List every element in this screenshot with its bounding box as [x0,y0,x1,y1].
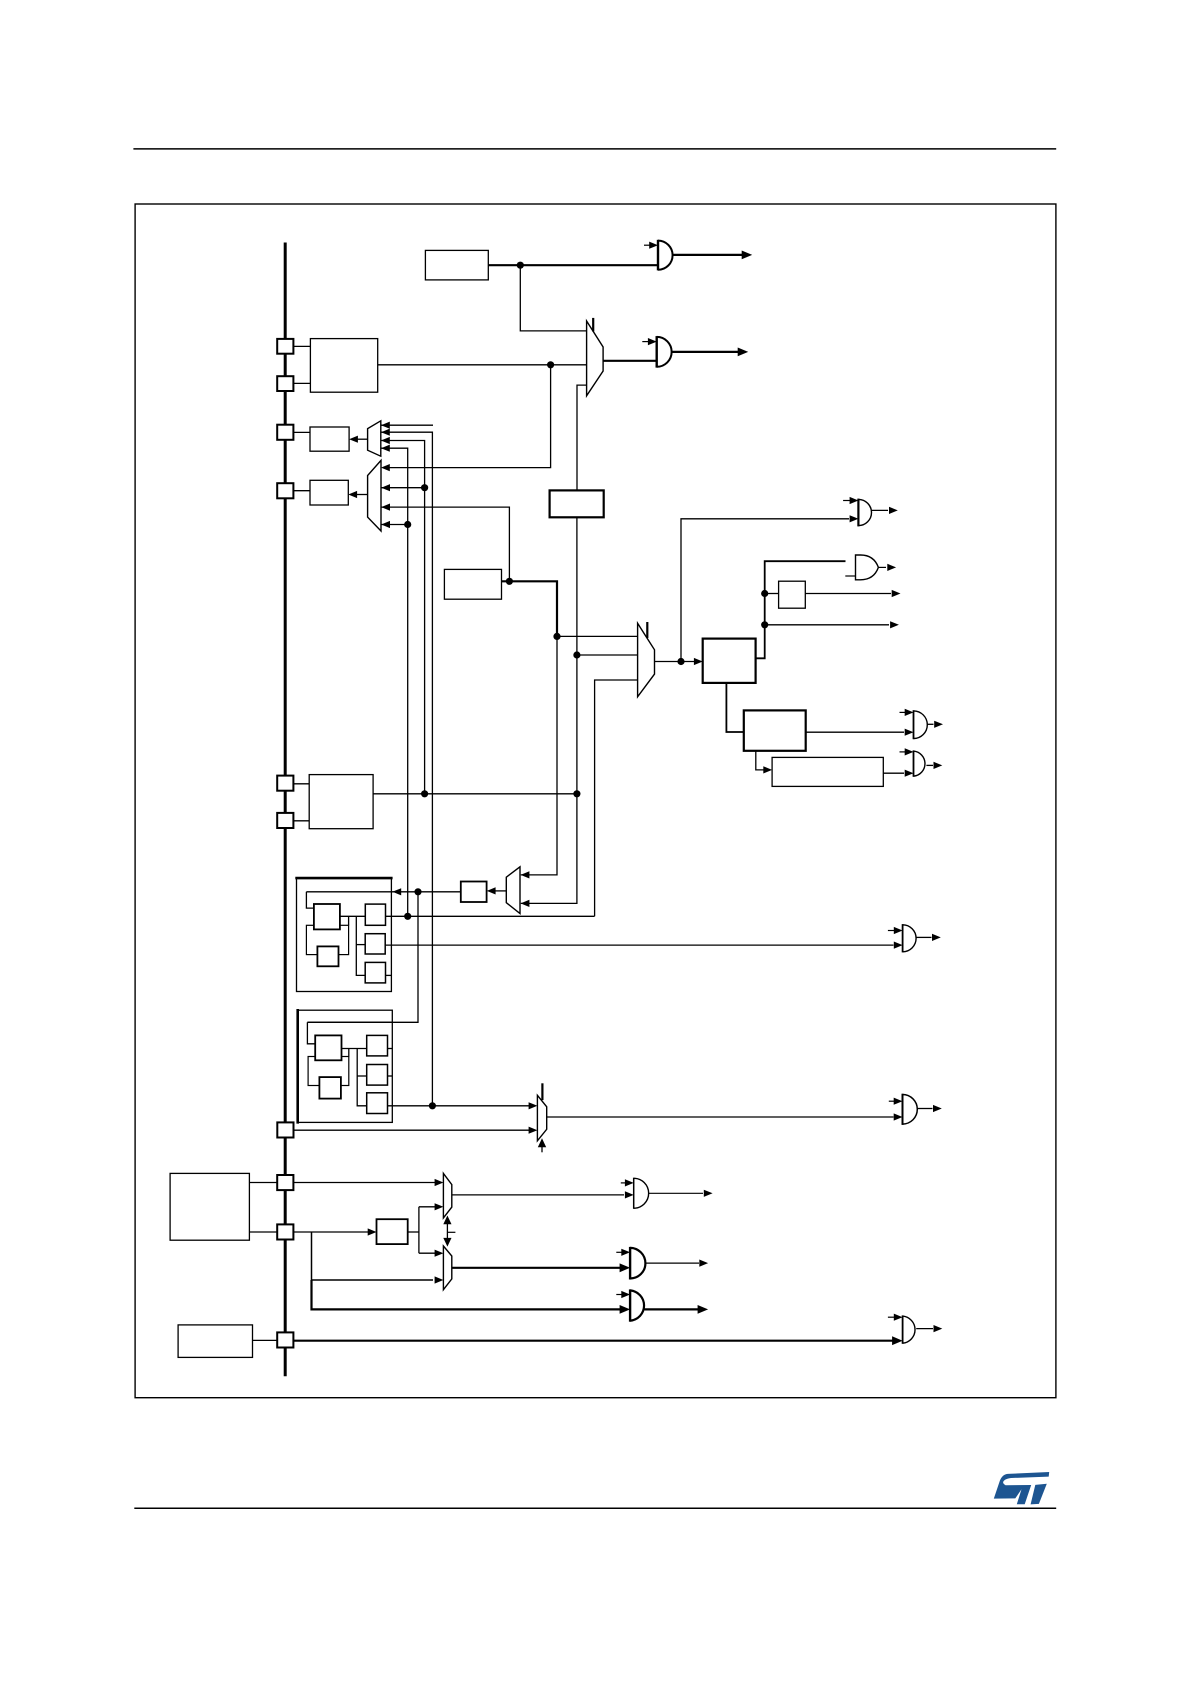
wire: K1 to K3 line [342,1048,367,1050]
gate 11 [913,710,915,739]
bus (internal clock bus vertical) [284,243,287,1377]
mux B (CPU clock mux) [638,623,655,697]
box G4 [365,934,385,954]
wire: to mux F input 1 [419,1252,437,1254]
wire: K3 stub [388,1048,393,1050]
mux D bottom select arrow [541,1146,543,1152]
mux A (master clock switch) [587,321,604,396]
node: junction to line [761,621,768,628]
node: junction on box A output [517,262,524,269]
wire: box L to P9 [249,1231,277,1233]
wire: P6 to box F [293,820,309,822]
pin square P10 [277,1332,293,1347]
wire: junction up and right to gate 3 [681,519,849,662]
gate 9 [902,1315,904,1343]
gate 4 stub input [845,575,855,577]
box G vertical a [348,916,350,925]
gate 12 enable arrow [900,751,907,753]
wire: junction down to mux A input 1 [520,265,586,331]
box K vertical b [357,1049,367,1106]
gate 12 [913,750,915,776]
wire: P7 to mux D input 2 [294,1129,532,1131]
mux 2 [368,460,381,531]
box C (CPU divider, thick) [703,639,756,683]
gate 3 (CPU clock gate) [857,499,859,527]
wire: mux 1 input 4 vertical [381,448,408,916]
box K outer (beeper block) [298,1010,393,1122]
wire: gate 9 output arrow [916,1328,933,1330]
box A (HSI RC oscillator) [425,250,488,280]
wire: K5 output to mux D input 1 [388,1105,532,1107]
wire: mux 1 output into box 1 [355,438,368,440]
gate 11 enable arrow [900,711,907,713]
box F (LSE oscillator) [309,775,373,829]
node: junction to box D [761,590,768,597]
node: junction on mux B output [677,658,684,665]
node: junction to box K [414,888,421,895]
wire: box E branch down to box P [756,751,764,770]
wire: gate 12 output arrow [926,764,933,766]
header rule [133,148,1056,150]
pin square P2 [277,376,293,391]
wire: mux 2 input 3 from divider junction [381,507,509,581]
box G vertical b [356,916,365,975]
node: junction on box I output [506,578,513,585]
box K2b [319,1077,341,1099]
gate 7 [629,1247,631,1280]
wire: G3 output long line to mux B riser [386,915,595,917]
mux D select tick [541,1083,543,1100]
wire: mux A output to gate 2 (thick) [603,360,657,362]
box E (peripheral divider, thick) [744,710,806,750]
wire: gate 6 output arrow [649,1192,704,1194]
wire: box M output split [408,1231,419,1233]
wire: branch down to mux F input 2 [312,1232,434,1280]
wire: mux 1 input 3 vertical [381,441,425,794]
wire: box D output arrow [805,593,891,595]
wire: P8 to mux E input 1 [293,1182,437,1184]
wire: P3 to box 1 [293,431,310,433]
wire: box E output to gate 11 [806,731,904,733]
gate 8 [629,1289,631,1321]
wire: K4 stub [388,1075,393,1077]
wire: branch down into box K [307,892,418,1023]
box K4 [367,1065,388,1086]
wire: mux 2 output into box 2 [354,494,368,496]
box K3 [367,1035,388,1056]
mux D (beeper mux) [537,1095,546,1141]
wire: mux E output to gate 6 [452,1194,624,1196]
wire: box P output to gate 12 [883,772,904,774]
wire: P9 to box M [293,1231,370,1233]
wire: mux 2 input 2 [381,487,425,489]
node: junction with P-vertical [404,913,411,920]
box G2a rect [306,925,348,954]
gate 3 enable arrow [843,500,850,502]
gate 10 enable arrow [889,1100,895,1102]
wire: gate 11 output arrow [927,723,933,725]
box B (HSE oscillator) [310,339,377,393]
node: junction with long vertical [429,1102,436,1109]
gate 1 enable arrow [644,244,651,246]
wire: lower branch arrow [765,624,889,626]
wire: gate 4 output arrow [879,566,886,568]
mux A select tick [592,318,594,332]
box I (HSI divider) [444,569,501,599]
select line between mux E and mux F [443,1216,451,1225]
wire: branch down to gate 8 (thick) [312,1280,621,1309]
wire: P10 long thick line to gate 9 [293,1340,892,1342]
box P (long peripheral box) [772,757,883,786]
wire: to mux E input 2 [419,1206,437,1208]
wire: gate 10 output arrow [917,1108,933,1110]
wire: box N to P10 [253,1339,278,1341]
pin square P4 [277,483,293,498]
mux 1 (CCO source select) [368,421,381,456]
wire: junction to box D [765,593,779,595]
gate 2 enable arrow [642,341,649,343]
node: junction on HSE line [547,361,554,368]
gate 10 [902,1094,904,1125]
node: junction at mux B in1 branch [553,633,560,640]
ST logo [994,1472,1049,1504]
box K5 [367,1093,388,1114]
wire: box C output up (thick) [756,561,846,658]
gate 2 (master clock gate) [656,336,658,368]
gate 7 enable arrow [616,1251,622,1253]
pin square P6 [277,813,293,828]
wire: box A output to gate 1 (thick) [488,264,658,266]
wire: branch to G4 [356,944,365,946]
wire: gate 3 output arrow [872,509,888,511]
box K contents: top line [307,1021,392,1023]
pin square P8 [277,1175,293,1190]
gate 4 (AND gate with stub) [856,554,879,580]
gate 5 (RTC gate) [902,924,904,952]
box K left vertical [307,1022,315,1044]
box G contents: left vertical [306,892,314,908]
node: junction input2 [421,484,428,491]
wire: G1 to G3 line [340,915,365,917]
box G top edge thick [295,877,392,880]
wire: mux B output [655,661,695,663]
pin square P9 [277,1224,293,1239]
mux C (RTC clock select) [506,867,520,914]
wire: G5 stub [386,974,392,976]
pin square P7 [277,1122,293,1137]
gate 1 (clock gate) [657,240,659,271]
box K2a rect [308,1057,349,1086]
pin square P1 [277,339,293,354]
box G1 [314,904,340,929]
wire: mux 1 input stub [381,424,433,426]
wire: mux A input 3 from divider [577,385,587,490]
gate 9 enable arrow [888,1316,895,1318]
box G outer (watchdog block) [297,878,392,991]
wire: P2 to box B [293,382,310,384]
wire: gate 7 output arrow (thick) [645,1262,699,1264]
wire: box F (LSE) output [373,793,577,795]
footer rule [134,1507,1056,1509]
pin square P5 [277,776,293,791]
mux E [443,1173,451,1218]
box 2 [310,480,348,505]
wire: box C down to box E (thick elbow) [726,683,743,732]
gate 5 enable arrow [888,930,895,932]
mux C output into box H [492,890,506,892]
box K left edge thick [296,1009,299,1124]
wire: divider output down to mux C input 2 [521,517,577,903]
wire: gate 5 output arrow [916,936,931,938]
wire: to mux B input 1 [557,635,638,637]
wire: P5 to box F [293,783,309,785]
figure frame [135,204,1056,1398]
wire: gate 1 output arrow [673,254,743,256]
box G2b [317,946,338,966]
wire: P4 to box 2 [293,490,310,492]
node: junction on LSE line [421,790,428,797]
wire: box B output to mux A input 2 [378,364,587,366]
gate 8 enable arrow [616,1294,622,1296]
wire: P1 to box B [293,345,310,347]
box N (LSI block) [178,1325,252,1358]
wire: mux 1 input 2 to long vertical [381,432,433,1105]
wire: mux F output to gate 7 (thick) [452,1267,620,1269]
pin square P3 [277,425,293,440]
box D [779,581,806,608]
box K vertical a [348,1049,350,1057]
box 1 (CCO output) [310,427,349,451]
node: junction input4 [404,521,411,528]
wire: to mux B input 2 [577,654,638,656]
box G3 [365,904,385,925]
box G5 [365,962,385,983]
wire: gate 2 output arrow [672,351,739,353]
box K1 [315,1035,341,1060]
box M [377,1219,408,1244]
box H (RTC divider) [461,882,487,903]
gate 6 enable arrow [621,1182,626,1184]
wire: box H output into box G [306,891,460,893]
wire: down to mux C input 1 [521,636,557,875]
mux F [443,1246,451,1290]
wire: mux 2 input 4 [381,524,408,526]
wire: box I output elbow (thick) [502,581,558,636]
wire: branch to K4 [357,1075,367,1077]
wire: mux D output to gate 10 [547,1116,894,1118]
wire: G4 output long line to gate 5 [385,944,893,946]
divider box (thick border) [550,490,604,517]
box L (option bytes block) [170,1173,249,1240]
node: junction LSE joins [573,790,580,797]
node: junction mux B in2 [573,651,580,658]
gate 6 [633,1178,635,1209]
wire: HSE junction down to mux 2 input 1 [386,365,551,468]
mux B select tick [646,622,648,638]
wire: box L to P8 [249,1182,277,1184]
wire: gate 8 output arrow (thick) [645,1308,699,1310]
wire: mux B input 3 from RTC line [595,680,638,916]
